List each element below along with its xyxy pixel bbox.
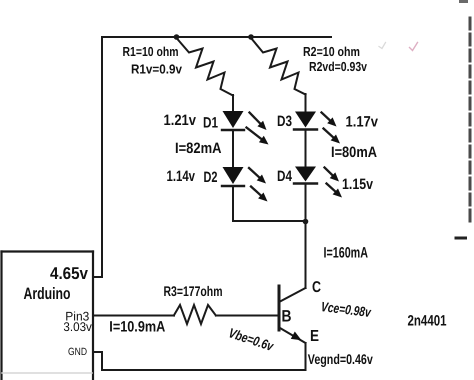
svg-text:C: C [312,279,321,296]
LED D1 [222,111,269,145]
wire ground rail bottom [102,369,306,371]
svg-text:2n4401: 2n4401 [408,312,447,329]
svg-text:1.21v: 1.21v [164,112,197,129]
resistor R2 zigzag [251,38,306,95]
artifact black dash right middle [456,237,466,240]
svg-text:R3=177ohm: R3=177ohm [164,283,223,299]
svg-text:1.17v: 1.17v [346,114,379,131]
artifact faint grey mark [379,43,386,49]
svg-text:R2=10 ohm: R2=10 ohm [303,44,360,59]
svg-text:Arduino: Arduino [24,285,71,303]
svg-text:R1=10 ohm: R1=10 ohm [123,44,179,59]
svg-text:3.03v: 3.03v [63,320,92,334]
wire D1 cathode to D2 anode [232,130,234,167]
LED D4 [294,167,342,198]
svg-text:GND: GND [68,346,87,358]
svg-text:D2: D2 [204,169,218,186]
wire top supply rail [102,36,331,38]
wire bottom of LED ladder (left to right) [233,220,306,222]
svg-text:Vegnd=0.46v: Vegnd=0.46v [308,351,373,367]
node junction LED ladder to collector [303,219,309,225]
wire connector into Arduino 4.65v pin [93,276,102,278]
wire R1 to D1 anode [232,95,234,112]
svg-text:R2vd=0.93v: R2vd=0.93v [309,59,368,74]
svg-text:1.14v: 1.14v [167,168,196,185]
resistor R1 zigzag [177,38,234,96]
svg-text:D4: D4 [277,168,293,185]
artifact pink pen mark [410,43,418,51]
transistor Q1 2n4401 [279,286,306,343]
LED D3 [294,112,340,144]
dashed screenshot artifact line right edge [469,18,472,226]
wire R2 to D3 anode [305,94,307,112]
svg-text:I=160mA: I=160mA [324,245,369,262]
wire ground corner vertical [101,352,103,370]
wire left vertical (supply to Arduino 5V) [101,37,103,277]
wire D2 cathode down [232,186,234,221]
svg-text:R1v=0.9v: R1v=0.9v [131,62,183,77]
wire D4 cathode to collector node [305,184,307,223]
svg-text:Vce=0.98v: Vce=0.98v [320,299,373,320]
svg-text:4.65v: 4.65v [50,264,88,283]
wire GND stub from Arduino [93,351,102,353]
LED D2 [222,167,268,202]
svg-text:1.15v: 1.15v [342,176,374,193]
artifact grey blob top right [459,0,468,3]
svg-text:D3: D3 [277,113,292,130]
svg-text:Vbe=0.6v: Vbe=0.6v [227,325,276,354]
svg-text:D1: D1 [203,115,218,132]
resistor R3 zigzag [174,305,216,324]
wire collector riser [305,222,307,288]
node junction on top rail (R2 tap) [248,34,254,40]
wire D3 cathode to D4 anode [305,130,307,167]
svg-text:I=82mA: I=82mA [175,140,222,157]
wire base wire right segment [216,315,278,317]
svg-text:I=80mA: I=80mA [331,144,377,161]
node junction on top rail (R1 tap) [174,34,180,40]
svg-text:B: B [282,308,292,326]
wire base wire left segment [94,315,174,317]
wire emitter drop [305,343,307,370]
svg-text:I=10.9mA: I=10.9mA [109,319,165,336]
svg-text:E: E [310,328,319,345]
Arduino box [2,252,94,380]
